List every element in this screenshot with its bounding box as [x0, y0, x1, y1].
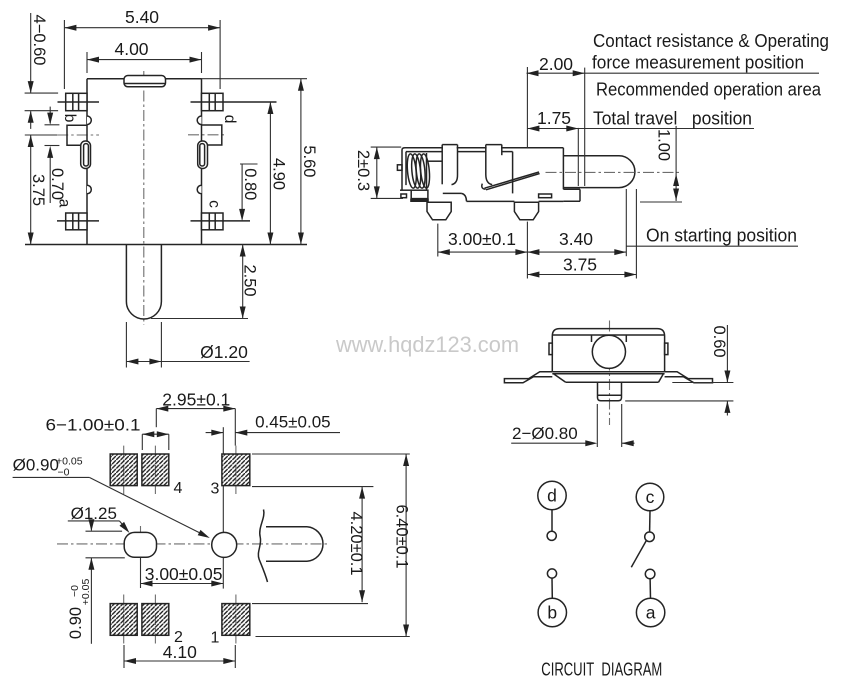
- front view left horizontal centerline: [25, 134, 57, 136]
- svg-text:4.20±0.1: 4.20±0.1: [347, 511, 365, 575]
- svg-text:2−Ø0.80: 2−Ø0.80: [512, 424, 578, 443]
- coil right wall: [426, 153, 428, 190]
- extension x=578.3: [577, 128, 579, 186]
- right gull-wing foot: [665, 372, 713, 383]
- svg-text:Ø1.20: Ø1.20: [200, 342, 248, 362]
- dim 0.90 +0.05/-0 (vertical): [90, 521, 92, 531]
- pad 4b: [142, 454, 169, 486]
- terminal 2 (side view): [514, 202, 538, 220]
- left small bump: [397, 165, 402, 171]
- left slot hole: [124, 532, 156, 557]
- right side pill: [198, 141, 208, 169]
- terminal 1 (side view): [427, 202, 451, 220]
- terminal d (top-right): [202, 93, 224, 110]
- left side pill: [81, 141, 91, 169]
- terminal c (bottom-right): [202, 213, 224, 230]
- dim 4.90: [269, 102, 271, 245]
- svg-text:b: b: [547, 603, 557, 623]
- svg-text:0.70: 0.70: [48, 168, 66, 200]
- dim 0.80: [240, 163, 258, 165]
- bottom profile: [400, 189, 411, 191]
- front view vertical centerline: [143, 71, 145, 325]
- left gull-wing foot: [504, 372, 552, 383]
- dim 3.75 (side): [527, 274, 636, 276]
- svg-text:www.hqdz123.com: www.hqdz123.com: [335, 332, 519, 357]
- pad 4a: [110, 454, 137, 486]
- dim 5.60: [300, 79, 302, 245]
- svg-text:3.75: 3.75: [563, 255, 597, 275]
- svg-text:2.95±0.1: 2.95±0.1: [162, 390, 230, 410]
- circuit terminal d: [538, 481, 566, 509]
- terminal b (top-left): [66, 93, 87, 110]
- svg-text:d: d: [221, 115, 238, 124]
- svg-text:5.60: 5.60: [300, 145, 318, 177]
- svg-text:4−0.60: 4−0.60: [30, 15, 48, 66]
- svg-text:−0: −0: [58, 467, 70, 479]
- terminal a (bottom-left): [66, 213, 87, 230]
- pad 1: [222, 604, 250, 636]
- dim 1.00: [675, 126, 677, 201]
- wires: [551, 510, 553, 532]
- left hole vertical centerline: [140, 526, 142, 560]
- coil spring: [406, 153, 418, 188]
- dim 6.40+/-0.1: [405, 454, 407, 637]
- dim 2.50: [242, 245, 244, 319]
- svg-text:0.45±0.05: 0.45±0.05: [255, 413, 331, 432]
- center button circle: [592, 335, 625, 368]
- left extension lines: [25, 92, 59, 94]
- plunger shaft (front view): [125, 245, 127, 302]
- dim 0.70 leader: [49, 149, 51, 203]
- svg-text:3.75: 3.75: [29, 174, 47, 206]
- svg-text:6−1.00±0.1: 6−1.00±0.1: [46, 416, 141, 435]
- side view body top edge: [402, 148, 563, 150]
- svg-text:+0.05: +0.05: [80, 579, 92, 606]
- inner vertical right: [512, 152, 514, 194]
- svg-text:4: 4: [174, 480, 183, 497]
- dim 4.20+/-0.1: [361, 487, 363, 603]
- svg-text:Recommended operation area: Recommended operation area: [596, 79, 822, 100]
- pad centerlines: [123, 446, 125, 494]
- svg-text:5.40: 5.40: [125, 7, 159, 27]
- svg-text:a: a: [56, 199, 73, 208]
- dark contact band: [410, 199, 429, 202]
- svg-text:2.00: 2.00: [539, 54, 573, 74]
- plunger (side view): [563, 155, 619, 157]
- svg-text:4.90: 4.90: [270, 158, 288, 190]
- switch body outline (front view): [87, 78, 202, 80]
- body bottom edge + extension line: [25, 244, 307, 246]
- guide strip 2: [487, 145, 501, 179]
- plunger capsule (partial, with break line): [266, 526, 307, 528]
- 5.60 top extension: [202, 78, 308, 80]
- svg-text:3.40: 3.40: [559, 229, 593, 249]
- dim 3.00+/-0.1: [437, 224, 439, 257]
- side view right edge: [562, 148, 564, 190]
- contact lever: [485, 172, 540, 188]
- svg-text:6.40±0.1: 6.40±0.1: [393, 504, 411, 568]
- pad 3: [222, 454, 250, 486]
- left step tab: [67, 125, 87, 145]
- svg-text:Contact resistance & Operating: Contact resistance & Operating: [593, 30, 829, 51]
- right small box: [539, 194, 552, 198]
- svg-text:CIRCUIT DIAGRAM: CIRCUIT DIAGRAM: [541, 659, 662, 680]
- svg-text:a: a: [646, 603, 656, 623]
- svg-text:1.75: 1.75: [537, 108, 571, 128]
- svg-text:1: 1: [211, 630, 220, 647]
- shaft extension lines for dia 1.20: [125, 322, 127, 368]
- dim 0.60: [726, 325, 728, 383]
- end view body: [552, 329, 664, 372]
- top cap: [124, 76, 166, 87]
- svg-text:0.80: 0.80: [241, 168, 259, 200]
- svg-text:b: b: [61, 114, 78, 123]
- svg-text:3.00±0.05: 3.00±0.05: [145, 564, 223, 584]
- right step tab: [202, 125, 222, 145]
- circuit terminal a: [636, 598, 664, 626]
- side bumps: [549, 343, 552, 355]
- end view vertical centerline: [609, 321, 611, 426]
- pad 2a: [110, 604, 137, 636]
- pad 2b: [142, 604, 169, 636]
- svg-text:2±0.3: 2±0.3: [354, 150, 372, 191]
- front view right horizontal centerline: [188, 134, 224, 136]
- base trapezoid: [554, 374, 566, 383]
- svg-text:3: 3: [211, 481, 220, 498]
- svg-text:Total travel position: Total travel position: [593, 108, 752, 129]
- line A: contact resistance plane: [527, 72, 820, 74]
- right bottom step: [563, 188, 580, 190]
- svg-text:force measurement position: force measurement position: [592, 52, 804, 73]
- contact points: [547, 531, 556, 540]
- left edge notches: [87, 116, 91, 125]
- svg-text:c: c: [646, 487, 655, 507]
- svg-text:On starting position: On starting position: [646, 225, 797, 246]
- switch lever: [631, 541, 646, 568]
- measurement plane vertical line: [526, 67, 528, 148]
- svg-text:c: c: [206, 200, 223, 208]
- terminal d midline / 4.90 extension: [191, 101, 277, 103]
- svg-text:4.00: 4.00: [114, 39, 148, 59]
- bottom shaft (end view): [597, 382, 599, 397]
- land pattern horizontal centerline: [57, 543, 330, 545]
- shaft bottom extension: [151, 318, 248, 320]
- inner top line segments: [406, 151, 442, 153]
- extension x=584.7: [584, 68, 586, 186]
- svg-text:1.00: 1.00: [655, 129, 673, 161]
- svg-text:2.50: 2.50: [241, 264, 259, 296]
- line B: total travel plane: [527, 128, 754, 130]
- svg-text:4.10: 4.10: [163, 642, 197, 662]
- svg-text:d: d: [547, 486, 557, 506]
- circuit terminal b: [538, 598, 566, 626]
- circuit terminal c: [636, 483, 664, 511]
- svg-text:0.90: 0.90: [67, 607, 85, 639]
- dim 3.75: [30, 135, 32, 245]
- dim 3.40: [527, 251, 626, 253]
- svg-text:Ø0.90: Ø0.90: [13, 456, 59, 475]
- coil seat box: [411, 190, 428, 198]
- terminal c midline / 0.80 tick: [191, 220, 251, 222]
- small dim arrow (terminal to step): [49, 107, 51, 124]
- svg-text:0.60: 0.60: [710, 325, 728, 357]
- vertical line through pad3/hole: [222, 427, 224, 454]
- guide strip 1: [443, 145, 457, 181]
- svg-text:−0: −0: [69, 585, 81, 597]
- side view left edge: [401, 150, 403, 190]
- right edge notches: [197, 116, 201, 125]
- inner shelf line: [427, 160, 443, 162]
- svg-text:3.00±0.1: 3.00±0.1: [448, 229, 516, 249]
- plunger centerline: [546, 171, 682, 173]
- dim dia 1.20: [126, 361, 249, 363]
- right hole dia0.90: [212, 532, 237, 557]
- body bottom lines: [552, 371, 664, 373]
